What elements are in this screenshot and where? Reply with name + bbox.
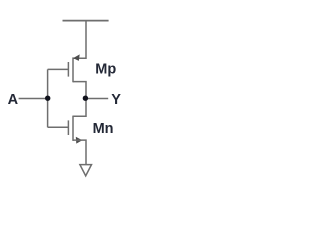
transistor Mp (PMOS) [68, 54, 79, 82]
ground [80, 165, 92, 176]
wire Mn source to ground [73, 140, 86, 164]
Mn source arrow [76, 137, 83, 144]
wire Mp drain to output node [73, 82, 86, 99]
Mn channel bar [72, 116, 74, 141]
VDD power rail [63, 20, 109, 22]
wire output node to Mn drain [73, 99, 86, 117]
Mp gate bar [67, 62, 69, 77]
svg-text:Y: Y [111, 92, 121, 108]
wire input A [19, 98, 48, 100]
wire to Mp gate [48, 68, 69, 70]
Mp channel bar [72, 57, 74, 82]
svg-text:A: A [8, 92, 19, 108]
wire to Mn gate [48, 126, 69, 128]
Mn gate bar [67, 120, 69, 135]
node A junction dot [45, 96, 50, 101]
wire input riser to gates [47, 69, 49, 127]
svg-text:Mp: Mp [95, 62, 116, 78]
svg-text:Mn: Mn [93, 121, 114, 137]
Mp source arrow [73, 54, 80, 61]
transistor Mn (NMOS) [68, 116, 82, 144]
wire output Y [86, 98, 109, 100]
node Y junction dot [83, 96, 88, 101]
wire VDD to Mp source [73, 21, 86, 59]
